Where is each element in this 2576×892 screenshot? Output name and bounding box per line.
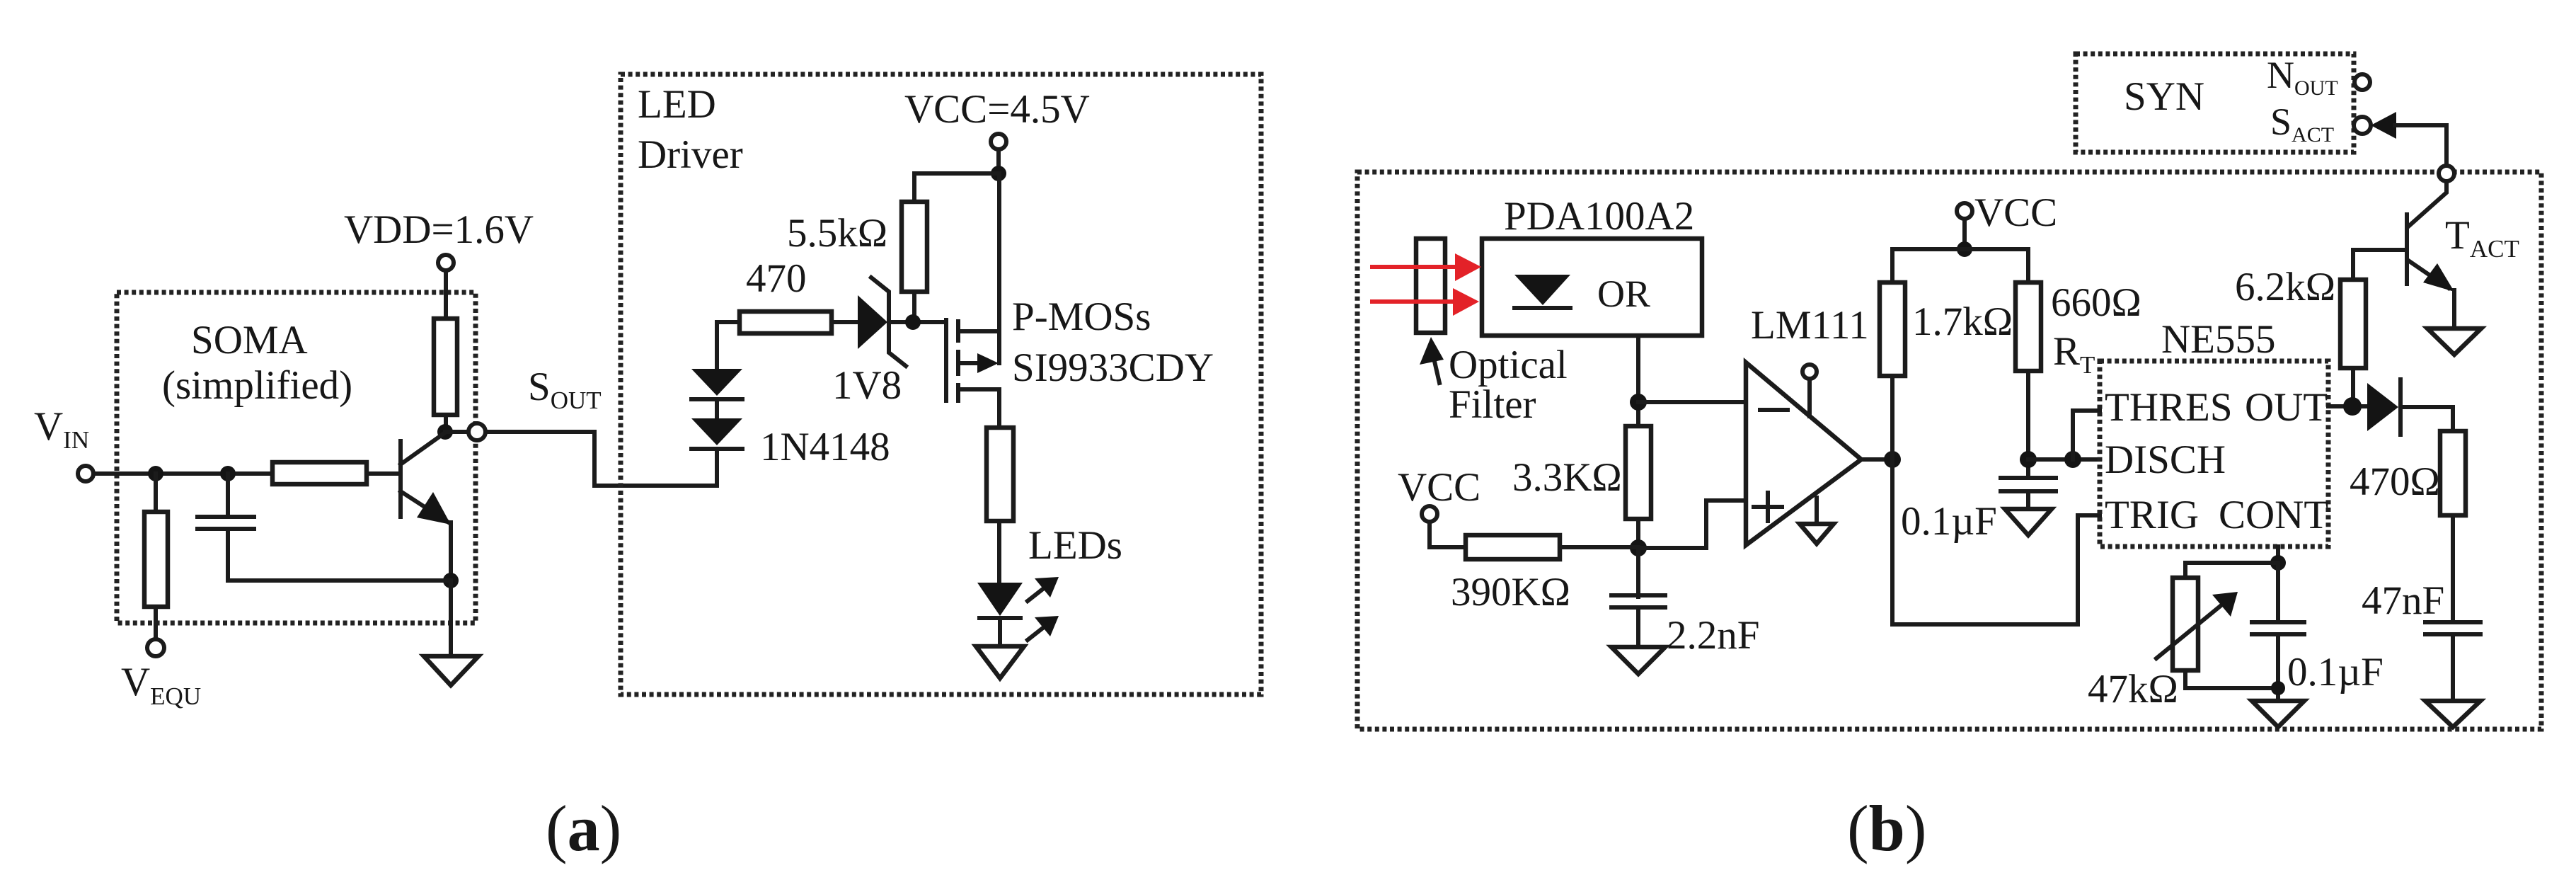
svg-text:VCC: VCC xyxy=(1398,465,1480,510)
wire D4 to 470 xyxy=(2400,407,2453,431)
wire source up to VCC xyxy=(997,173,1001,331)
wire plus node to LM111 plus xyxy=(1638,501,1746,548)
ground CONT xyxy=(2252,701,2304,727)
svg-text:6.2kΩ: 6.2kΩ xyxy=(2235,265,2335,309)
resistor R11 6.2k xyxy=(2340,280,2366,368)
wire VDD to resistor xyxy=(444,270,448,319)
node OUT junction xyxy=(2343,397,2362,416)
wire C5 to ground xyxy=(2276,634,2280,701)
svg-text:660Ω: 660Ω xyxy=(2051,280,2141,325)
svg-text:SYN: SYN xyxy=(2124,74,2204,119)
wire emitter node to ground xyxy=(449,581,453,656)
svg-text:1.7kΩ: 1.7kΩ xyxy=(1912,299,2013,344)
diode D2 1N4148 xyxy=(691,418,742,445)
wire SACT to TACT emitter xyxy=(2395,125,2446,166)
wire VCC down xyxy=(996,149,1001,173)
svg-text:1N4148: 1N4148 xyxy=(760,425,890,469)
node A xyxy=(148,466,163,481)
wire 47k bottom xyxy=(2185,670,2278,688)
resistor R13 47k variable xyxy=(2173,578,2198,670)
optical filter slab xyxy=(1416,239,1445,333)
resistor R4 5.5k xyxy=(902,202,927,292)
svg-text:VCC: VCC xyxy=(1974,190,2057,235)
svg-text:LM111: LM111 xyxy=(1751,303,1869,348)
wire node to SOUT terminal xyxy=(445,430,468,434)
svg-text:5.5kΩ: 5.5kΩ xyxy=(787,211,887,256)
resistor R5 470 xyxy=(740,311,832,333)
wire 5.5k to gate node xyxy=(912,292,916,322)
svg-text:(a): (a) xyxy=(546,792,621,864)
transistor M1 gate bar xyxy=(944,320,948,401)
SYN dotted box xyxy=(2076,54,2354,152)
node SOUT junction xyxy=(437,424,453,440)
wire node to 2.2nF xyxy=(1636,548,1640,597)
terminal NOUT xyxy=(2354,74,2370,90)
resistor R7 3.3K xyxy=(1626,426,1651,519)
wire VCC to 5.5k resistor xyxy=(914,173,999,202)
terminal SOUT xyxy=(468,423,485,440)
diode D4 xyxy=(2367,383,2398,431)
resistor R1 (VDD pull-up) xyxy=(434,319,457,415)
wire 470 right to zener xyxy=(832,320,858,324)
transistor M1 channel segments xyxy=(956,321,960,341)
wire CONT pin down xyxy=(2276,547,2280,563)
U1 power pin xyxy=(1807,379,1812,416)
wire 1.7k down to output node xyxy=(1890,376,1894,459)
wire D1 to D2 xyxy=(715,399,719,418)
zener Z1 cathode bar with hooks xyxy=(871,278,906,366)
wire 2.2nF to ground xyxy=(1636,607,1640,647)
node VCC junction xyxy=(991,166,1006,181)
wire zener to gate xyxy=(889,320,946,324)
transistor M1 bulk arrow xyxy=(977,353,999,373)
R13 variable arrow xyxy=(2156,605,2222,658)
wire DISCH to NE555 xyxy=(2028,457,2100,462)
svg-text:VDD=1.6V: VDD=1.6V xyxy=(344,207,534,252)
svg-text:NE555: NE555 xyxy=(2161,317,2275,362)
wire 470 to 47nF xyxy=(2451,515,2455,621)
wire 47nF to ground xyxy=(2451,634,2455,701)
terminal TACT top xyxy=(2439,166,2454,181)
LED Driver dotted box xyxy=(621,74,1261,694)
op-amp U1 LM111 xyxy=(1746,362,1861,545)
LED D3 emission arrow 2 xyxy=(1028,624,1047,640)
LED D3 emission arrow 1 xyxy=(1028,585,1047,601)
terminal VEQU xyxy=(147,639,164,656)
terminal SACT xyxy=(2354,117,2371,134)
terminal VCC left xyxy=(1422,506,1437,522)
wire U1 output xyxy=(1861,457,1892,462)
resistor R10 660 RT xyxy=(2016,282,2041,371)
resistor R2 (base series) xyxy=(272,462,367,484)
wire to VEQU terminal xyxy=(154,607,158,639)
capacitor C3 0.1uF xyxy=(2001,476,2056,480)
svg-text:OR: OR xyxy=(1597,273,1650,315)
wire 390K to node xyxy=(1560,545,1638,549)
transistor Q2 collector arrow xyxy=(2423,263,2454,292)
node C5 bottom junction xyxy=(2271,681,2285,695)
terminal VCC top xyxy=(1957,203,1972,219)
svg-text:3.3KΩ: 3.3KΩ xyxy=(1512,455,1622,500)
svg-text:47nF: 47nF xyxy=(2362,578,2444,623)
resistor R6 (LED series) xyxy=(987,428,1013,521)
capacitor C1 xyxy=(197,515,254,519)
wire 660 down to DISCH node xyxy=(2026,371,2030,476)
svg-text:CONT: CONT xyxy=(2219,493,2328,537)
ground (a) xyxy=(424,656,478,685)
svg-text:OUT: OUT xyxy=(2245,385,2328,430)
svg-text:THRES: THRES xyxy=(2105,385,2233,430)
wire emitter down xyxy=(449,522,453,581)
wire CONT to 47k xyxy=(2185,563,2278,578)
node U1 output junction xyxy=(1884,451,1901,468)
arrow into SACT xyxy=(2371,112,2396,139)
svg-text:LED: LED xyxy=(638,82,716,127)
capacitor C4 47nF xyxy=(2425,620,2480,624)
ground TACT xyxy=(2427,328,2481,355)
wire SOUT to LED driver xyxy=(485,432,717,486)
capacitor C5 0.1uF CONT xyxy=(2252,620,2304,624)
svg-text:TRIG: TRIG xyxy=(2105,493,2199,537)
ground 2.2nF xyxy=(1611,647,1665,674)
node minus junction xyxy=(1630,394,1647,411)
NE555 dotted box xyxy=(2100,361,2328,547)
resistor R9 1.7k xyxy=(1880,282,1905,376)
zener diode Z1 1V8 triangle xyxy=(858,295,887,349)
wire 6.2k to OUT node xyxy=(2351,368,2355,406)
transistor M1 bulk stub xyxy=(958,361,979,365)
node VCC rail xyxy=(1957,241,1972,257)
svg-text:470Ω: 470Ω xyxy=(2350,459,2440,504)
svg-text:0.1µF: 0.1µF xyxy=(1901,499,1997,544)
wire resistor to LED xyxy=(997,521,1001,583)
U1 minus sign xyxy=(1760,408,1788,412)
wire VIN to base resistor xyxy=(93,471,272,476)
svg-text:Filter: Filter xyxy=(1449,382,1536,427)
wire THRES pin xyxy=(2073,411,2100,459)
svg-text:Optical: Optical xyxy=(1449,343,1568,387)
resistor R8 390K xyxy=(1466,535,1560,559)
wire 3.3K to bottom node xyxy=(1636,519,1640,549)
transistor M1 drain stub xyxy=(958,389,999,428)
wire capacitor to emitter node xyxy=(228,529,451,581)
ground 47nF xyxy=(2425,701,2480,727)
wire minus node to LM111 xyxy=(1638,400,1746,404)
wire PDA to minus node xyxy=(1636,336,1640,426)
ground LM111 xyxy=(1800,524,1834,544)
svg-text:P-MOSs: P-MOSs xyxy=(1012,295,1151,339)
svg-text:(b): (b) xyxy=(1847,792,1926,864)
wire VEQU resistor xyxy=(154,474,158,512)
wire resistor to node xyxy=(444,415,448,432)
diode D1 1N4148 xyxy=(691,369,742,396)
node emitter junction xyxy=(443,573,459,588)
node plus junction xyxy=(1630,539,1647,556)
svg-text:LEDs: LEDs xyxy=(1028,523,1122,568)
ground C3 xyxy=(2005,509,2052,535)
terminal VCC xyxy=(991,134,1006,149)
U1 plus sign xyxy=(1754,505,1782,509)
svg-text:Driver: Driver xyxy=(638,132,743,177)
node DISCH junction xyxy=(2020,451,2037,468)
transistor Q1 emitter arrow xyxy=(417,492,451,525)
svg-text:390KΩ: 390KΩ xyxy=(1451,570,1570,614)
svg-text:1V8: 1V8 xyxy=(832,363,902,408)
svg-text:470: 470 xyxy=(746,256,807,301)
node CONT junction xyxy=(2270,555,2286,571)
circuit (b) outer dotted box xyxy=(1357,172,2541,729)
resistor R3 (VEQU) xyxy=(144,512,168,607)
wire base to 6.2k xyxy=(2353,250,2407,280)
wire 470 left xyxy=(717,320,740,324)
transistor Q1 collector xyxy=(401,433,445,464)
transistor Q2 TACT emitter wire xyxy=(2408,181,2446,227)
wire resistor to base xyxy=(367,471,398,476)
svg-text:DISCH: DISCH xyxy=(2105,438,2226,482)
wire VCC top rail xyxy=(1962,219,1967,249)
terminal VIN xyxy=(78,466,93,481)
transistor Q2 base bar xyxy=(2405,215,2409,284)
transistor M1 source stub xyxy=(958,329,999,333)
transistor Q1 base bar xyxy=(398,441,403,517)
photodiode box PDA100A2 xyxy=(1482,239,1702,336)
wire output node down to TRIG line xyxy=(1892,459,2100,624)
resistor R12 470 xyxy=(2440,431,2466,515)
LED D3 xyxy=(977,583,1023,616)
ground LED xyxy=(976,646,1024,678)
terminal VDD xyxy=(438,255,454,270)
red light arrow 2 xyxy=(1370,299,1454,304)
svg-text:SI9933CDY: SI9933CDY xyxy=(1012,345,1214,390)
svg-text:SOMA: SOMA xyxy=(191,318,308,362)
transistor Q1 emitter xyxy=(401,491,449,522)
svg-text:0.1µF: 0.1µF xyxy=(2287,650,2384,694)
wire C3 to ground xyxy=(2026,491,2030,509)
svg-text:47kΩ: 47kΩ xyxy=(2088,667,2178,711)
wire VCC to 390K xyxy=(1430,522,1466,547)
red light arrow 1 xyxy=(1370,265,1456,269)
node B xyxy=(220,466,236,481)
svg-text:PDA100A2: PDA100A2 xyxy=(1504,194,1694,239)
wire LED to ground xyxy=(998,618,1002,646)
photodiode symbol xyxy=(1514,275,1570,305)
U1 ground pin xyxy=(1815,498,1819,524)
svg-text:(simplified): (simplified) xyxy=(162,363,352,408)
transistor Q2 collector xyxy=(2408,261,2449,288)
optical filter pointer arrow xyxy=(1434,358,1439,383)
svg-text:VCC=4.5V: VCC=4.5V xyxy=(904,87,1090,132)
wire CONT node to C5 xyxy=(2276,563,2280,622)
wire collector to ground xyxy=(2452,290,2456,328)
svg-text:2.2nF: 2.2nF xyxy=(1667,613,1759,658)
wire VCC rail horizontal xyxy=(1892,249,2028,282)
wire 470 down to diodes xyxy=(715,322,719,369)
node gate junction xyxy=(905,314,921,330)
wire capacitor feedback xyxy=(226,474,230,517)
capacitor C2 2.2nF xyxy=(1611,593,1665,597)
wire bulk tie xyxy=(997,331,1001,363)
node THRES junction xyxy=(2064,451,2081,468)
SOMA dotted box xyxy=(117,292,476,623)
wire OUT pin xyxy=(2328,404,2367,408)
